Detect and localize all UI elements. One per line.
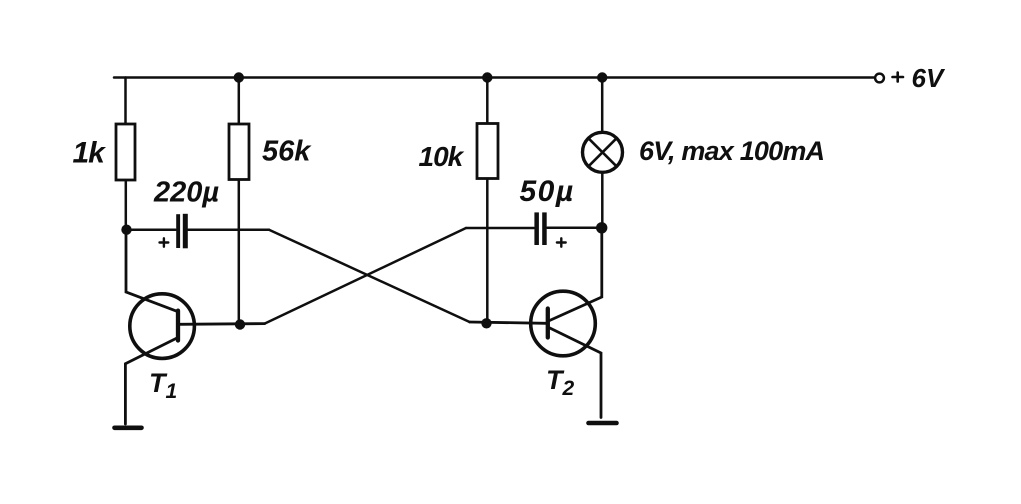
svg-text:6V, max 100mA: 6V, max 100mA (639, 136, 824, 166)
svg-text:6V: 6V (912, 63, 946, 93)
svg-text:50µ: 50µ (520, 175, 575, 208)
svg-text:1k: 1k (73, 137, 107, 170)
svg-text:10k: 10k (419, 141, 465, 172)
svg-text:220µ: 220µ (153, 177, 219, 209)
svg-text:T2: T2 (546, 365, 575, 400)
svg-text:T1: T1 (149, 368, 177, 403)
svg-text:56k: 56k (262, 136, 312, 168)
